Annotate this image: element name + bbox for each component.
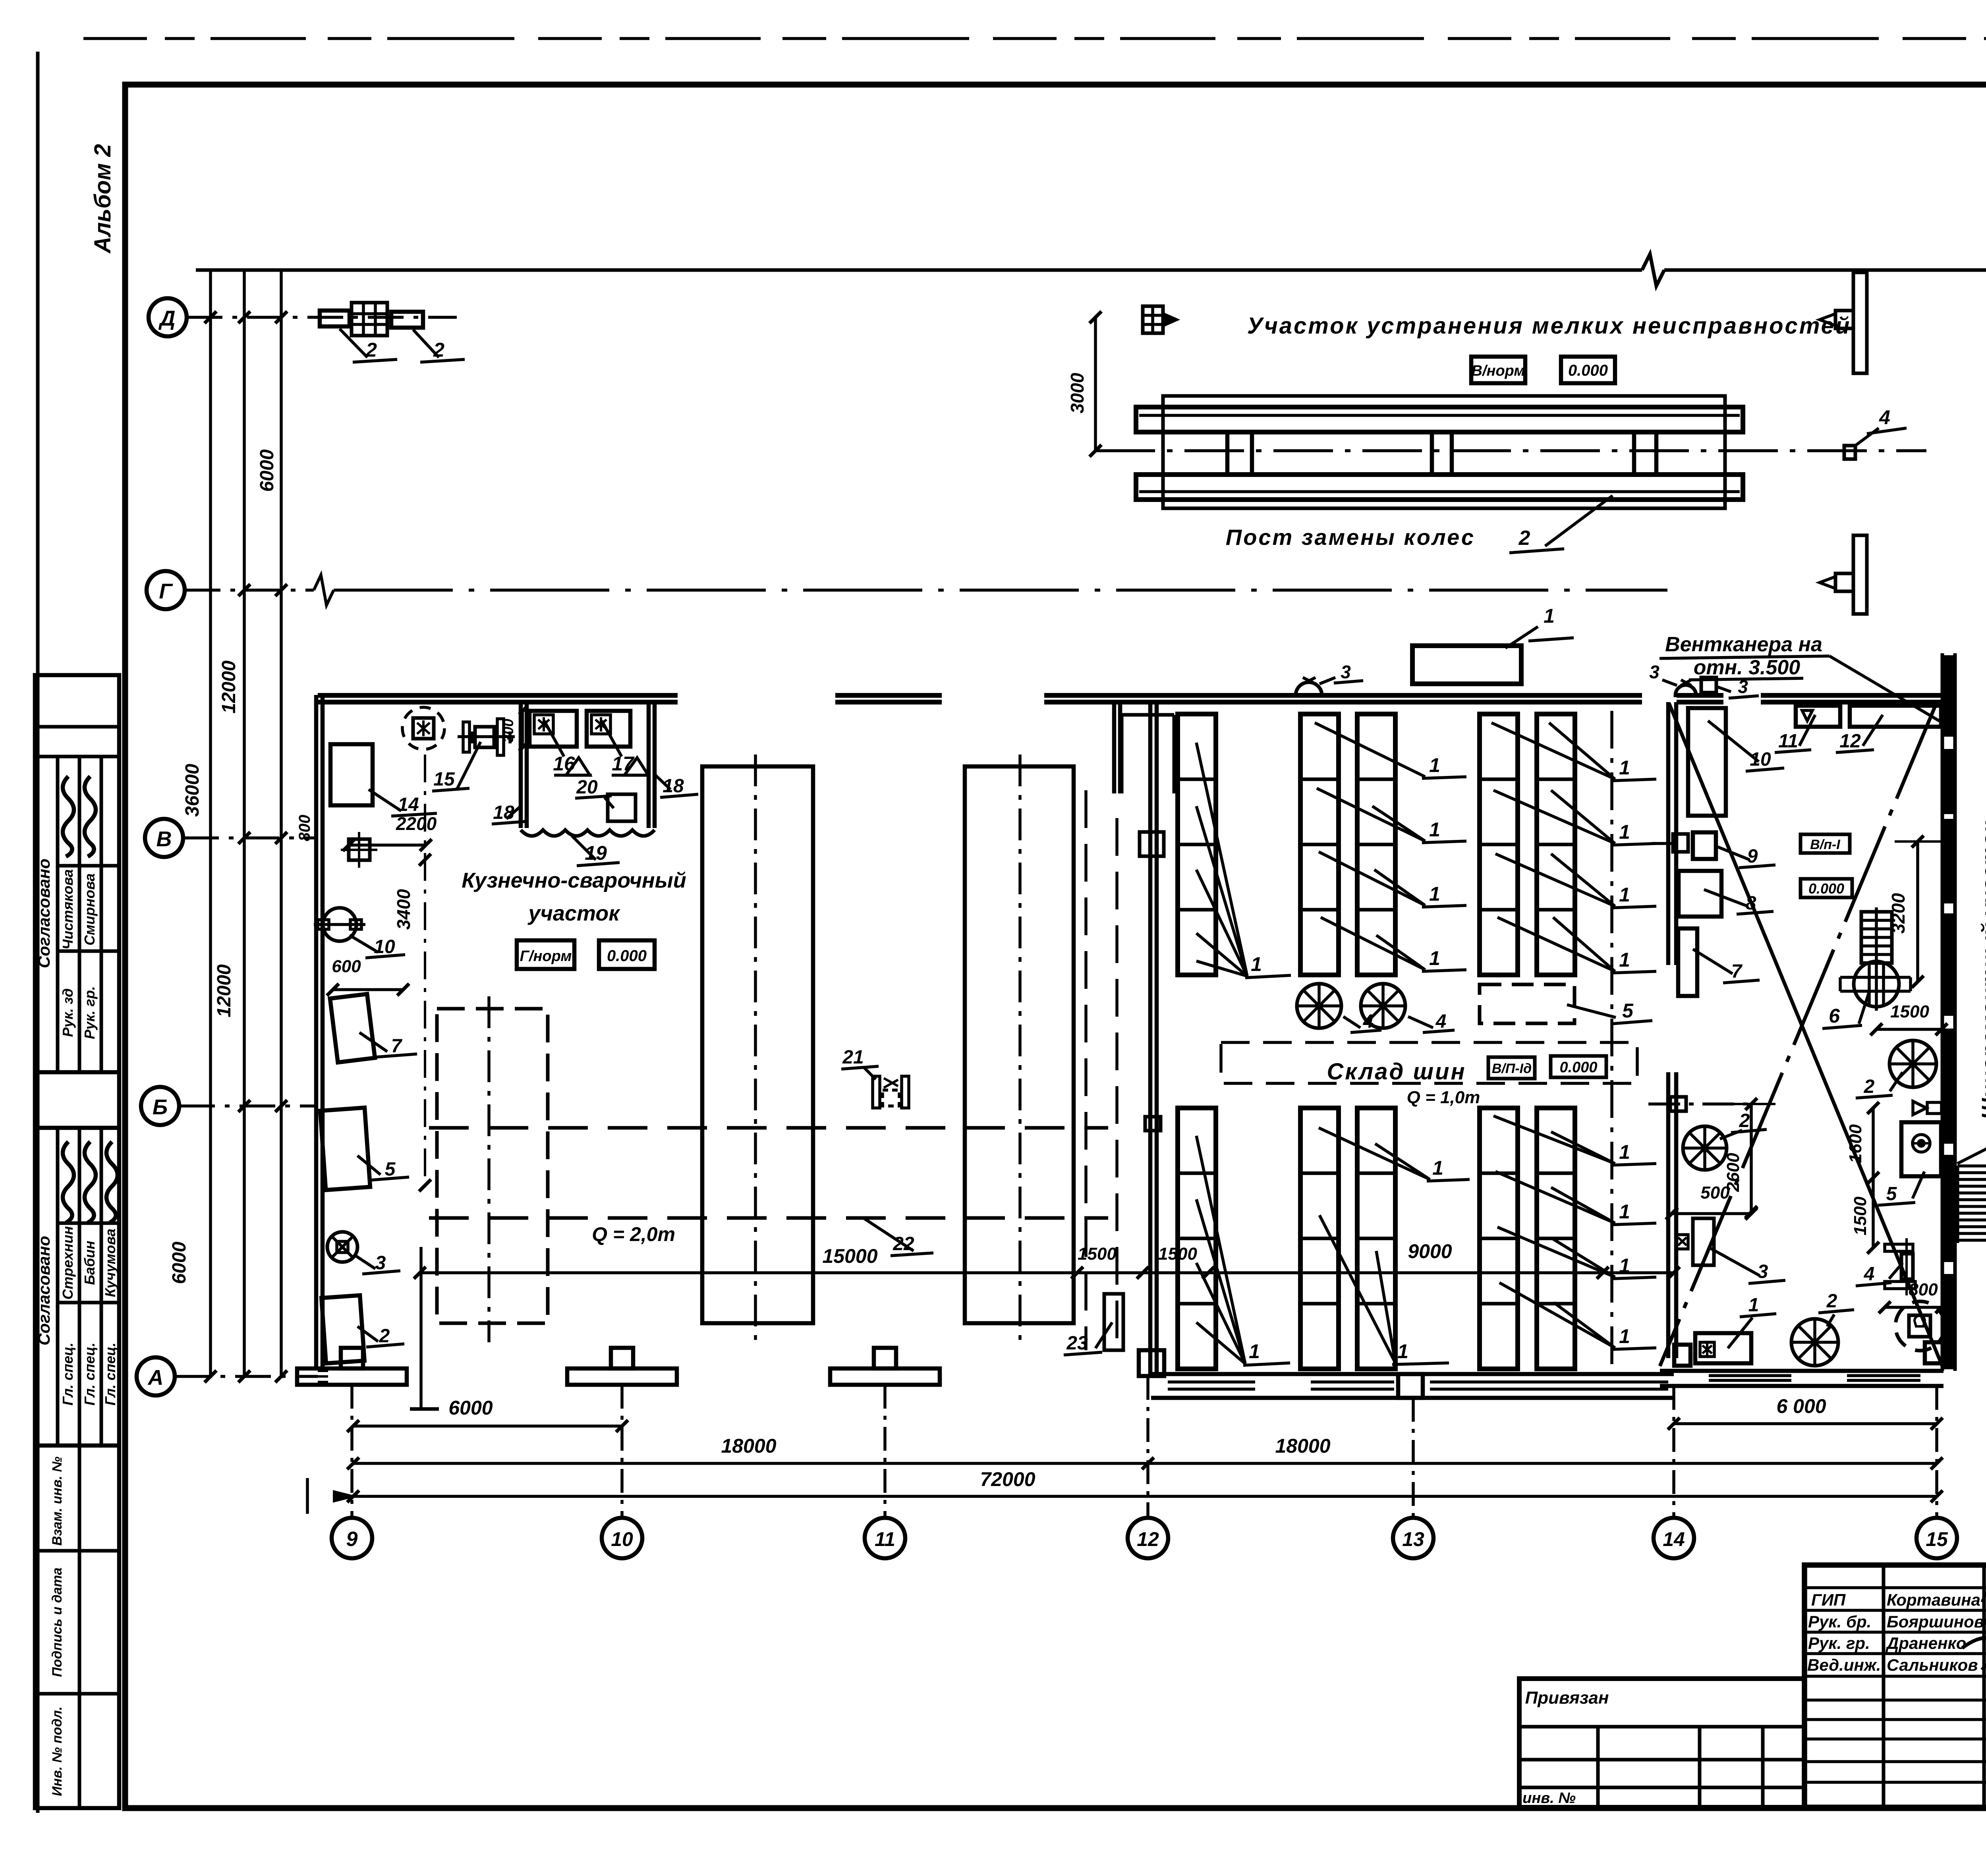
svg-text:12: 12 (1839, 731, 1861, 752)
svg-text:Гл. спец.: Гл. спец. (102, 1343, 118, 1405)
right hall east wall (1941, 653, 1944, 1371)
svg-text:9000: 9000 (1408, 1240, 1452, 1262)
equipment 8 right hall (1679, 871, 1721, 917)
equipment 10 right hall (1688, 708, 1726, 816)
dim 3200 (1916, 841, 1919, 982)
svg-text:В/п-I: В/п-I (1810, 837, 1841, 852)
label 4 fan left (1343, 1017, 1360, 1028)
label 5 tire hall (1567, 1005, 1616, 1017)
svg-text:2: 2 (1739, 1110, 1750, 1131)
dim line 6000 left bottom (353, 1424, 622, 1428)
svg-text:Кузнечно-сварочный: Кузнечно-сварочный (462, 869, 686, 892)
axis circle 14 (1654, 1518, 1694, 1558)
tire storage dashed boundary (1221, 1042, 1637, 1083)
svg-text:0.000: 0.000 (1568, 362, 1608, 379)
svg-text:7: 7 (391, 1036, 403, 1057)
svg-text:Сальников: Сальников (1887, 1656, 1978, 1674)
svg-text:2: 2 (1864, 1076, 1875, 1097)
X cross line 2 (1660, 703, 1936, 1366)
svg-text:Гл. спец.: Гл. спец. (81, 1343, 98, 1405)
wheel change post column 2 (1430, 432, 1434, 475)
svg-text:6 000: 6 000 (1776, 1395, 1826, 1417)
column block axis 12 (1139, 1350, 1164, 1376)
equipment 1 right hall (1695, 1333, 1751, 1363)
dim line 15000 row (420, 1271, 1674, 1274)
stamp block2 signatures (63, 1142, 74, 1223)
left dim vertical line 6000 (280, 270, 283, 1378)
label 4 fan right (1408, 1017, 1433, 1028)
svg-text:Взам. инв. №: Взам. инв. № (50, 1457, 65, 1546)
symbol 4 small square on centerline (1844, 446, 1855, 459)
label 2 second leader (413, 330, 439, 357)
axis circle G (147, 571, 185, 609)
star square symbol tire right (1677, 1235, 1688, 1249)
wall flange axis B (1670, 1097, 1686, 1111)
dim terminator vertical left (419, 1247, 423, 1409)
tire rack row2 col1 (1178, 1108, 1216, 1369)
privyazan inner lines (1519, 1725, 1804, 1729)
left dim vertical line 36000 (209, 270, 212, 1378)
sig Boyarshinov (1984, 1613, 1986, 1627)
svg-text:Драненко: Драненко (1886, 1634, 1966, 1652)
dim line 6000 right bottom (1674, 1422, 1937, 1425)
sig Kortavina (1982, 1589, 1986, 1604)
building bottom wall band (1151, 1372, 1674, 1376)
label 1 top leader (1505, 627, 1538, 648)
axis stem 14 (1672, 1386, 1675, 1518)
fan 2 right hall mid (1889, 1040, 1936, 1087)
svg-text:9: 9 (1747, 846, 1758, 867)
svg-text:10: 10 (611, 1528, 633, 1550)
svg-text:0.000: 0.000 (607, 947, 647, 965)
svg-text:18000: 18000 (1275, 1435, 1330, 1457)
svg-text:В/норм: В/норм (1472, 363, 1525, 379)
svg-text:отн. 3.500: отн. 3.500 (1694, 656, 1801, 679)
equipment 2 left bench (321, 1295, 364, 1363)
equipment 12 rect (1850, 706, 1941, 727)
label 2 left (357, 1326, 378, 1341)
svg-text:Подпись и дата: Подпись и дата (50, 1567, 65, 1677)
top right column 2 (1853, 535, 1867, 614)
wheel change post column 1 (1225, 432, 1230, 475)
equipment 14 rack (330, 744, 373, 805)
axis circle 9 (332, 1518, 372, 1558)
svg-text:Q = 2,0т: Q = 2,0т (592, 1223, 675, 1245)
svg-text:10: 10 (374, 936, 395, 957)
svg-text:Рук. гр.: Рук. гр. (81, 986, 98, 1039)
svg-text:Бабин: Бабин (81, 1241, 98, 1285)
sig Salnikov (1982, 1656, 1986, 1710)
svg-text:1: 1 (1432, 1157, 1443, 1179)
tire wall column lower (1145, 1117, 1161, 1131)
wheel change post top beam (1136, 407, 1743, 432)
top wall segment 1 (318, 693, 678, 698)
X cross line 1 (1669, 703, 1942, 1366)
tire spreader 6 circle (1875, 907, 1878, 1011)
svg-text:Согласовано: Согласовано (35, 859, 53, 968)
svg-text:11: 11 (1778, 731, 1798, 752)
svg-text:Вед.инж.: Вед.инж. (1807, 1656, 1881, 1674)
svg-text:1: 1 (1429, 947, 1440, 969)
corner post right (1925, 1342, 1943, 1363)
axis line A (175, 1375, 318, 1378)
axis circle 13 (1393, 1518, 1433, 1558)
left dim ticks (238, 311, 250, 323)
svg-text:Склад шин: Склад шин (1327, 1059, 1466, 1085)
svg-text:13: 13 (1402, 1528, 1424, 1550)
svg-text:1: 1 (1619, 757, 1630, 779)
bottom wall column axis13 (1398, 1374, 1423, 1398)
long bay rect C (965, 766, 1074, 1323)
svg-text:участок: участок (527, 901, 620, 925)
svg-text:1: 1 (1251, 953, 1262, 975)
axis stem 11 (883, 1385, 887, 1518)
svg-text:Кучумова: Кучумова (102, 1229, 118, 1297)
equipment 5 left bench (320, 1108, 370, 1190)
svg-text:2200: 2200 (396, 813, 437, 834)
column square symbol below 14 (349, 839, 370, 860)
equipment 5 right hall (1901, 1122, 1941, 1176)
axis circle 11 (865, 1518, 905, 1558)
dim line 72000 (353, 1495, 1937, 1498)
welding table 17 (587, 711, 630, 747)
svg-text:12000: 12000 (214, 964, 235, 1017)
svg-text:Г: Г (159, 579, 173, 603)
right hall west wall upper (1666, 702, 1671, 965)
top right column 1 (1853, 272, 1867, 373)
axis line B (179, 1104, 316, 1108)
svg-text:Г/норм: Г/норм (520, 948, 572, 965)
svg-text:А: А (147, 1366, 164, 1390)
equipment 2 hatched square on axis D (352, 303, 387, 336)
axis stem 10 (620, 1385, 624, 1518)
left dim vertical line 12000 (243, 270, 246, 1378)
stamp block 2 row lines (58, 1222, 119, 1225)
axis circle D (149, 298, 187, 336)
label 3 left (354, 1255, 375, 1269)
monorail dashed line upper (429, 1126, 1108, 1130)
dashed circle with star symbol (402, 707, 444, 749)
left hall west wall (314, 695, 319, 1368)
inspection pit dashed rect (437, 1009, 548, 1323)
svg-text:4: 4 (1435, 1011, 1447, 1032)
svg-text:19: 19 (585, 842, 607, 864)
sheet left trim line (36, 52, 40, 1813)
svg-text:Рук. гр.: Рук. гр. (1808, 1634, 1870, 1652)
svg-text:15: 15 (1926, 1528, 1948, 1550)
svg-text:1: 1 (1429, 754, 1440, 776)
svg-text:12: 12 (1137, 1528, 1159, 1550)
svg-text:3: 3 (1758, 1261, 1768, 1282)
svg-text:7: 7 (1731, 961, 1743, 982)
signature table horizontals (1804, 1586, 1986, 1589)
svg-text:300: 300 (500, 719, 516, 743)
axis circle 15 (1916, 1518, 1957, 1558)
column footing axis 10 (567, 1368, 677, 1385)
equipment 10 tank (323, 908, 356, 941)
boundary break symbol (1642, 254, 1664, 286)
svg-text:Участок устранения мелких не: Участок устранения мелких неисправностей (1247, 313, 1851, 339)
svg-text:Кортавина: Кортавина (1887, 1590, 1980, 1609)
svg-text:1500: 1500 (1078, 1244, 1117, 1264)
stamp block1 signatures (63, 776, 74, 857)
dim line 18000 (353, 1462, 1937, 1465)
axis stem 15 (1935, 1386, 1938, 1518)
ventkamera leader (1830, 656, 1941, 722)
axis circle V (145, 819, 183, 857)
svg-text:1500: 1500 (1890, 1002, 1929, 1021)
upper boundary line (196, 268, 1642, 272)
welding room west wall (519, 703, 523, 828)
box 0.000 right (1801, 879, 1852, 897)
vent dome 3 on tire hall wall (1296, 682, 1322, 695)
svg-text:10: 10 (1750, 749, 1771, 770)
tire rack row1 col5 (1537, 714, 1575, 975)
column footing axis 9 (297, 1368, 407, 1385)
dim 3000 vertical (1094, 317, 1097, 451)
left stamp column outer box (35, 675, 119, 1808)
bay B centerline (754, 755, 757, 1342)
right hall top wall segment 2 (1761, 693, 1943, 698)
tire hall niche door frame (1120, 715, 1124, 793)
svg-text:3: 3 (375, 1253, 386, 1274)
svg-text:Привязан: Привязан (1525, 1688, 1609, 1708)
fan 4 right (1361, 984, 1405, 1028)
long bay rect B (702, 766, 813, 1323)
welding room curtain wavy bottom (521, 830, 655, 836)
tire rack row2 col2 (1300, 1108, 1339, 1369)
svg-text:1: 1 (1619, 1141, 1630, 1163)
svg-text:3: 3 (1341, 662, 1351, 682)
svg-text:1: 1 (1619, 1200, 1630, 1223)
svg-text:Q = 1,0т: Q = 1,0т (1407, 1088, 1480, 1107)
equipment 1 rect above wall (1412, 646, 1521, 684)
svg-text:6000: 6000 (169, 1241, 190, 1284)
svg-text:5: 5 (1886, 1183, 1897, 1204)
stamp block 1 verticals (56, 757, 60, 1072)
box 0.000 top (1561, 357, 1615, 383)
axis line G with break (185, 589, 314, 592)
air outlet hatched square on axis D (1143, 306, 1163, 333)
svg-text:1: 1 (1249, 1340, 1260, 1363)
box V/norm (1471, 357, 1525, 383)
svg-text:Гл. спец.: Гл. спец. (60, 1343, 76, 1405)
svg-text:1: 1 (1619, 949, 1630, 971)
svg-text:9: 9 (346, 1528, 358, 1551)
svg-text:18000: 18000 (721, 1435, 776, 1457)
equipment 23 rect (1104, 1294, 1123, 1350)
equipment 2 left box on axis D (320, 311, 350, 326)
svg-text:15000: 15000 (822, 1245, 877, 1267)
partition dashed line a (1084, 790, 1088, 1350)
tire hall west wall (1148, 702, 1153, 1374)
svg-text:6: 6 (1829, 1005, 1840, 1027)
svg-text:3400: 3400 (393, 889, 414, 930)
svg-text:14: 14 (398, 794, 419, 815)
equipment 3 tire right (1693, 1218, 1714, 1265)
wall column flange upper (1673, 834, 1688, 852)
svg-text:Д: Д (158, 307, 176, 330)
box 0.000 tire (1551, 1056, 1606, 1077)
svg-text:0.000: 0.000 (1559, 1059, 1597, 1076)
svg-text:1: 1 (1748, 1295, 1759, 1316)
svg-text:Бояршинов: Бояршинов (1887, 1612, 1984, 1631)
top wall segment 2 (835, 693, 942, 698)
stamp block 2 verticals (56, 1128, 60, 1446)
svg-text:2: 2 (433, 339, 444, 361)
pit A centerline (487, 996, 491, 1342)
fan 2 right hall bottom (1791, 1319, 1838, 1366)
right hall west wall lower (1666, 1072, 1671, 1358)
signature table verticals (1882, 1565, 1886, 1807)
svg-text:12000: 12000 (218, 660, 240, 714)
svg-text:20: 20 (576, 777, 598, 798)
svg-text:Согласовано: Согласовано (35, 1236, 53, 1345)
axis circle 12 (1128, 1518, 1168, 1558)
svg-text:6000: 6000 (257, 449, 278, 492)
axis stem 12 (1146, 1376, 1149, 1518)
svg-text:5: 5 (385, 1159, 396, 1180)
box G/norm (517, 940, 574, 969)
axis circle A (137, 1357, 175, 1395)
box 0.000 left hall (599, 940, 655, 969)
svg-text:инв. №: инв. № (1522, 1790, 1576, 1807)
box V/p-I right (1801, 834, 1850, 853)
stamp block 1 row lines (58, 864, 119, 868)
svg-text:4: 4 (1864, 1264, 1875, 1285)
label 10 left (350, 935, 378, 952)
svg-text:500: 500 (1700, 1183, 1730, 1202)
svg-text:1600: 1600 (1846, 1124, 1865, 1163)
funnel symbol at wall (1913, 1101, 1926, 1115)
svg-text:72000: 72000 (980, 1468, 1035, 1490)
box V/P-Id (1488, 1057, 1535, 1079)
svg-text:1: 1 (1397, 1340, 1408, 1363)
label 14 (369, 789, 401, 811)
svg-text:Стрехнин: Стрехнин (60, 1226, 76, 1299)
svg-text:3200: 3200 (1888, 893, 1909, 934)
machine 15 grinder (458, 735, 515, 738)
wheel change post column 3 (1632, 432, 1636, 475)
label 2 post leader (1545, 496, 1613, 546)
partition dashed line b (1115, 818, 1119, 1350)
svg-text:800: 800 (1909, 1280, 1938, 1299)
svg-text:2: 2 (1518, 527, 1530, 550)
right hall top wall segment 1 (1677, 693, 1723, 698)
dashed circle rotary (1895, 1301, 1945, 1351)
dashed equipment 5 rect (1480, 984, 1575, 1023)
svg-text:Шиноремонтный участок: Шиноремонтный участок (1977, 821, 1986, 1120)
svg-text:1500: 1500 (1851, 1197, 1870, 1235)
svg-text:1: 1 (1429, 883, 1440, 905)
equipment 20 in welding room (608, 794, 636, 821)
monorail dashed line lower (429, 1216, 1108, 1220)
svg-text:1: 1 (1429, 818, 1440, 841)
vent dome 3 right hall (1675, 685, 1696, 695)
svg-text:14: 14 (1663, 1528, 1685, 1550)
svg-text:4: 4 (1879, 406, 1890, 428)
tire rack row2 col5 (1537, 1108, 1575, 1369)
svg-text:Пост замены колес: Пост замены колес (1226, 525, 1475, 550)
welding table 16 (529, 711, 577, 747)
top wall segment 3 tire hall (1044, 693, 1642, 698)
svg-text:Рук. зд: Рук. зд (60, 988, 76, 1037)
axis circle 10 (602, 1518, 642, 1558)
tire rack row1 col2 (1300, 714, 1339, 975)
svg-text:Чистякова: Чистякова (60, 869, 76, 950)
tire rack row2 col3 (1357, 1108, 1395, 1369)
svg-text:6000: 6000 (448, 1397, 493, 1419)
svg-text:1: 1 (1619, 1325, 1630, 1347)
svg-text:Инв. № подл.: Инв. № подл. (50, 1706, 65, 1796)
label 2 first leader (340, 329, 367, 357)
tire rack row1 col1 (1178, 714, 1216, 975)
svg-text:Смирнова: Смирнова (81, 873, 98, 946)
title block pривязан box (1519, 1679, 1804, 1807)
svg-text:Рук. бр.: Рук. бр. (1808, 1612, 1871, 1631)
dim 3400 guide dash line (424, 755, 426, 1187)
svg-text:1: 1 (1619, 1255, 1630, 1277)
stamp spacer line (35, 1126, 119, 1130)
svg-text:11: 11 (875, 1528, 895, 1550)
small square 3 right hall (1701, 677, 1716, 693)
post centerline axis (1095, 449, 1926, 452)
axis B dash line right (1648, 1102, 1756, 1106)
tire rack row2 col4 (1480, 1108, 1518, 1369)
fan 4 left (1297, 984, 1341, 1028)
svg-text:Альбом 2: Альбом 2 (90, 144, 116, 254)
svg-text:1: 1 (1544, 605, 1555, 627)
stairs right (1956, 1166, 1959, 1243)
bay C centerline (1018, 755, 1022, 1342)
corner post left (1674, 1345, 1690, 1366)
sig Dranenko (1962, 1631, 1986, 1650)
svg-text:2: 2 (1826, 1291, 1837, 1312)
svg-text:21: 21 (842, 1047, 864, 1068)
svg-text:5: 5 (1622, 1000, 1634, 1022)
svg-text:1: 1 (1619, 884, 1630, 906)
equipment 11 rect (1796, 706, 1840, 727)
stamp column top cell line (35, 725, 119, 729)
tire hall wall stem pilaster (1112, 702, 1117, 793)
axis line D (187, 316, 457, 319)
svg-text:ГИП: ГИП (1811, 1590, 1846, 1609)
tire spreader 6 ladder (1861, 912, 1892, 963)
svg-text:В/П-Iд: В/П-Iд (1492, 1061, 1532, 1076)
label 21 machine (873, 1076, 880, 1108)
equipment 3 left valve (327, 1232, 357, 1262)
axis stem 9 (350, 1385, 354, 1518)
stamp block 3 lines (78, 1446, 81, 1808)
tire rack row1 col4 (1480, 714, 1518, 975)
label 19 (572, 836, 596, 860)
right hall bottom band (1660, 1369, 1943, 1373)
tire rack row1 col3 (1357, 714, 1395, 975)
svg-text:Б: Б (153, 1095, 168, 1119)
wheel change post outline (1163, 396, 1725, 508)
welding room east wall (647, 703, 651, 828)
svg-text:Вентканера на: Вентканера на (1665, 633, 1822, 656)
svg-text:600: 600 (332, 957, 361, 976)
svg-text:2: 2 (365, 339, 377, 361)
svg-text:0.000: 0.000 (1808, 880, 1844, 897)
svg-text:3000: 3000 (1067, 372, 1088, 413)
svg-text:1: 1 (1619, 821, 1630, 843)
label 5 left (357, 1156, 381, 1175)
sheet top trim dashed line (83, 37, 1986, 40)
title block outer signatures box (1804, 1565, 1986, 1807)
axis stem 13 (1412, 1398, 1415, 1518)
